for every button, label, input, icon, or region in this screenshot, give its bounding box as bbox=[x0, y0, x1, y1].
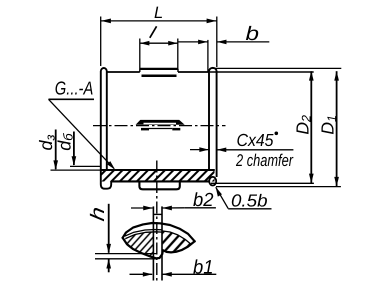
dimension h upper line with down arrow bbox=[106, 204, 111, 254]
far-side hole rim bridge bbox=[153, 213, 162, 215]
svg-text:Cx45: Cx45 bbox=[237, 130, 274, 150]
dimension l: label bbox=[150, 26, 157, 38]
svg-text:L: L bbox=[154, 4, 163, 22]
dimension b: left arrow bbox=[178, 40, 208, 45]
extension line lower for h bbox=[95, 258, 157, 260]
vertical centerline of axis (bottom view) bbox=[156, 161, 158, 284]
wave washer top outer arc bbox=[123, 223, 195, 241]
svg-text:G...-A: G...-A bbox=[55, 77, 94, 98]
flange hatched section bbox=[102, 170, 215, 181]
underline of G...-A bbox=[49, 98, 95, 100]
flange top line bbox=[101, 169, 215, 171]
flange right rolled bead (0.5b corner) bbox=[209, 177, 216, 186]
wave washer inner double arc (far surface) bbox=[125, 230, 162, 237]
diameter D2 dimension line with arrows bbox=[309, 71, 314, 183]
thread band on top rim bbox=[140, 69, 178, 76]
extension line upper for h bbox=[95, 253, 158, 255]
wave washer bottom-left dip arc bbox=[123, 238, 163, 258]
extension line left for l bbox=[139, 39, 141, 70]
dimension l: dimension line with arrows bbox=[140, 41, 178, 46]
wave washer bottom-right arc bbox=[163, 241, 195, 252]
body top surface line (right of thread band) bbox=[178, 71, 209, 73]
extension line bottom for D1 bbox=[216, 186, 341, 188]
dimension L: dimension line with arrows bbox=[101, 19, 217, 24]
diameter D1 dimension line with arrows bbox=[334, 71, 339, 187]
bottom boss under flange bbox=[139, 182, 179, 189]
washer hole left edge bbox=[152, 206, 154, 280]
chamfer dimension right arrow / note underline bbox=[217, 147, 294, 152]
wave washer section: right hatched region bbox=[162, 231, 195, 253]
extension line bottom for D2 bbox=[211, 182, 314, 184]
extension line for d3 bbox=[51, 169, 101, 171]
dimension b1 right arrow with tail under label bbox=[162, 272, 216, 277]
dimension b1 left arrow bbox=[130, 272, 153, 277]
wave washer inner thin arc right bbox=[162, 231, 190, 244]
diameter db dimension line with down arrow bbox=[72, 132, 77, 166]
extension line for db bbox=[70, 165, 101, 167]
internal dome (far-side emboss) on axis bbox=[136, 120, 185, 125]
dimension h lower line with up arrow bbox=[106, 259, 111, 272]
diameter d3 dimension line with down arrow bbox=[53, 130, 58, 170]
svg-text:b: b bbox=[246, 23, 260, 45]
svg-text:0.5b: 0.5b bbox=[231, 191, 268, 211]
left wall of body (section) bbox=[101, 68, 107, 170]
horizontal centerline (axis) bbox=[93, 125, 226, 127]
extension line right for L bbox=[216, 17, 218, 68]
svg-text:2 chamfer: 2 chamfer bbox=[235, 151, 294, 170]
top extension line (rim top level) for D1 bbox=[213, 67, 342, 69]
extension line left for L bbox=[100, 17, 102, 67]
leader for 0.5b pointing at bead bbox=[216, 187, 229, 209]
flange bottom line bbox=[111, 180, 210, 182]
chamfer dimension left arrow bbox=[190, 147, 209, 152]
right wall of body (section) bbox=[209, 68, 217, 177]
wave washer section: left hatched region bbox=[124, 232, 153, 257]
svg-text:b1: b1 bbox=[193, 256, 214, 278]
body top surface line (left of thread band) bbox=[107, 71, 140, 73]
washer hole right edge bbox=[161, 206, 163, 280]
top extension line (body top level) for D2 bbox=[210, 71, 314, 73]
tabs under the dome bbox=[141, 128, 180, 130]
dimension b2 right arrow bbox=[162, 206, 185, 211]
dimension b2 left arrow bbox=[131, 206, 153, 211]
leader arrow from G...-A to bore bbox=[49, 99, 116, 169]
flange left rolled foot bbox=[101, 170, 111, 189]
extension line for b at inner wall bbox=[207, 40, 209, 72]
dimension b: right arrow bbox=[217, 40, 269, 45]
extension line right for l bbox=[177, 39, 179, 70]
